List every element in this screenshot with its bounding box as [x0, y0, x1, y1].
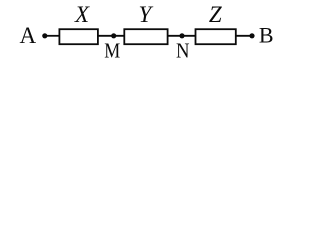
node A terminal dot	[42, 33, 47, 38]
wire resistor X to resistor Y	[98, 35, 125, 37]
svg-text:M: M	[104, 38, 120, 62]
svg-text:N: N	[176, 38, 190, 62]
svg-text:A: A	[19, 23, 36, 48]
svg-text:Z: Z	[209, 2, 222, 27]
node B terminal dot	[249, 33, 254, 38]
node M junction dot	[111, 33, 116, 38]
wire resistor Z to node B dot	[236, 35, 252, 37]
node N junction dot	[179, 33, 184, 38]
wire A-dot to resistor X	[45, 35, 60, 37]
svg-text:Y: Y	[139, 2, 154, 27]
resistor Z body	[196, 29, 236, 44]
resistor Y body	[124, 29, 167, 44]
resistor X body	[59, 29, 98, 44]
wire resistor Y to resistor Z	[168, 35, 196, 37]
svg-text:X: X	[74, 2, 90, 27]
svg-text:B: B	[259, 23, 274, 48]
